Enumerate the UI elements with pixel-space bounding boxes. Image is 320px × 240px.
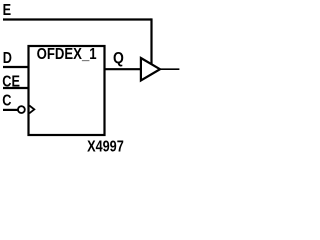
tri-state output buffer	[141, 58, 160, 80]
pin label D	[3, 50, 12, 67]
flip-flop body OFDEX_1	[29, 46, 105, 135]
svg-text:C: C	[2, 93, 11, 110]
inversion bubble on C pin	[18, 106, 25, 113]
pin label CE	[2, 73, 20, 90]
svg-text:Q: Q	[113, 50, 124, 67]
svg-text:E: E	[3, 2, 11, 19]
pin label C	[2, 93, 11, 110]
wire Q	[104, 68, 141, 70]
svg-text:OFDEX_1: OFDEX_1	[37, 46, 97, 63]
svg-text:D: D	[3, 50, 12, 67]
label OFDEX_1	[37, 46, 97, 63]
clock wedge	[29, 106, 34, 114]
instance name X4997	[87, 138, 124, 155]
wire D	[3, 66, 29, 68]
wire output	[160, 68, 179, 70]
wire E vertical drop to buffer enable	[150, 18, 152, 64]
pin label Q	[113, 50, 124, 67]
wire E horizontal	[3, 18, 152, 20]
wire C	[3, 109, 18, 111]
wire CE	[3, 87, 29, 89]
svg-text:X4997: X4997	[87, 138, 124, 155]
net label E	[3, 2, 11, 19]
